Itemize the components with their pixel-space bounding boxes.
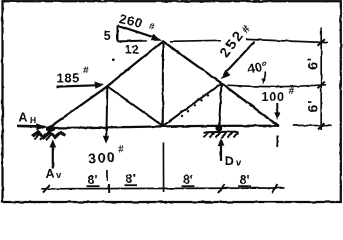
slope triangle vertical leg, 5 — [117, 25, 119, 41]
left top chord A-B-apex — [49, 41, 164, 128]
svg-text:6': 6' — [305, 99, 321, 112]
svg-text:12: 12 — [125, 43, 139, 57]
extension dash below 300 load — [106, 170, 108, 182]
svg-text:v: v — [56, 170, 62, 181]
load 185# arrow — [57, 85, 96, 86]
diagonal B-G — [107, 86, 163, 126]
svg-text:D: D — [225, 155, 234, 169]
load 100# arrow — [276, 103, 278, 114]
tick 4 — [218, 184, 225, 193]
load 260# arrow along top chord — [118, 25, 155, 37]
bottom chord A-F — [49, 126, 279, 128]
angle arc arrow — [264, 72, 266, 80]
svg-text:8': 8' — [240, 173, 250, 187]
reaction arrow A_H — [17, 125, 41, 128]
svg-text:300: 300 — [88, 149, 117, 167]
tick middle — [318, 82, 325, 89]
svg-text:H: H — [30, 115, 36, 125]
bottom dimension line — [41, 187, 285, 190]
svg-text:100: 100 — [262, 90, 285, 104]
tick top — [318, 39, 325, 46]
svg-text:v: v — [236, 158, 242, 169]
extension below G / tick 3 — [162, 143, 164, 193]
support D joint dot — [215, 125, 222, 132]
mid extension line from joint E — [228, 85, 327, 87]
svg-text:8': 8' — [88, 173, 98, 187]
extension dash below F — [276, 136, 278, 148]
right top chord apex-E-F — [163, 41, 278, 126]
vertical member E-D — [219, 83, 222, 127]
apex extension line (left part) — [170, 40, 221, 41]
svg-text:5: 5 — [104, 29, 111, 43]
tick 2 — [108, 184, 110, 193]
dotted construction line below diagonal G-E — [181, 94, 209, 117]
tick 5 — [272, 185, 278, 193]
diagonal G-E — [163, 83, 222, 126]
svg-text:8': 8' — [183, 173, 193, 187]
svg-text:A: A — [19, 111, 28, 125]
vertical member apex-G — [162, 41, 164, 126]
svg-text:6': 6' — [305, 57, 321, 70]
stray ink dot — [112, 58, 115, 61]
right dimension line vertical — [320, 27, 322, 130]
load 252# arrow — [227, 42, 255, 72]
svg-text:8': 8' — [126, 172, 136, 186]
reaction arrow D_v — [220, 144, 222, 161]
apex extension line (right part) — [247, 39, 329, 42]
tick bottom — [318, 123, 325, 129]
svg-text:#: # — [289, 86, 295, 97]
tick at A — [43, 185, 50, 193]
svg-text:185: 185 — [57, 71, 81, 86]
slope triangle horizontal leg, 12 — [118, 40, 147, 43]
support A pin: joint blob — [46, 126, 55, 132]
svg-text:#: # — [83, 65, 89, 76]
support D hatching — [204, 132, 239, 138]
reaction arrow A_v — [52, 146, 54, 169]
bottom-right extension line — [293, 124, 332, 126]
svg-text:#: # — [118, 145, 124, 156]
svg-text:A: A — [46, 167, 55, 181]
support A hatching — [32, 132, 66, 140]
load 300# arrow — [105, 128, 107, 138]
vertical member B down — [106, 86, 109, 127]
